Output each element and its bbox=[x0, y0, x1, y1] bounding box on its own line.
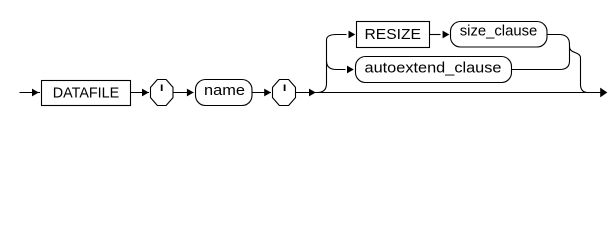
svg-text:name: name bbox=[204, 82, 245, 99]
svg-text:size_clause: size_clause bbox=[460, 23, 538, 40]
svg-text:DATAFILE: DATAFILE bbox=[53, 85, 120, 102]
svg-text:autoextend_clause: autoextend_clause bbox=[365, 59, 502, 76]
svg-text:RESIZE: RESIZE bbox=[365, 26, 422, 43]
